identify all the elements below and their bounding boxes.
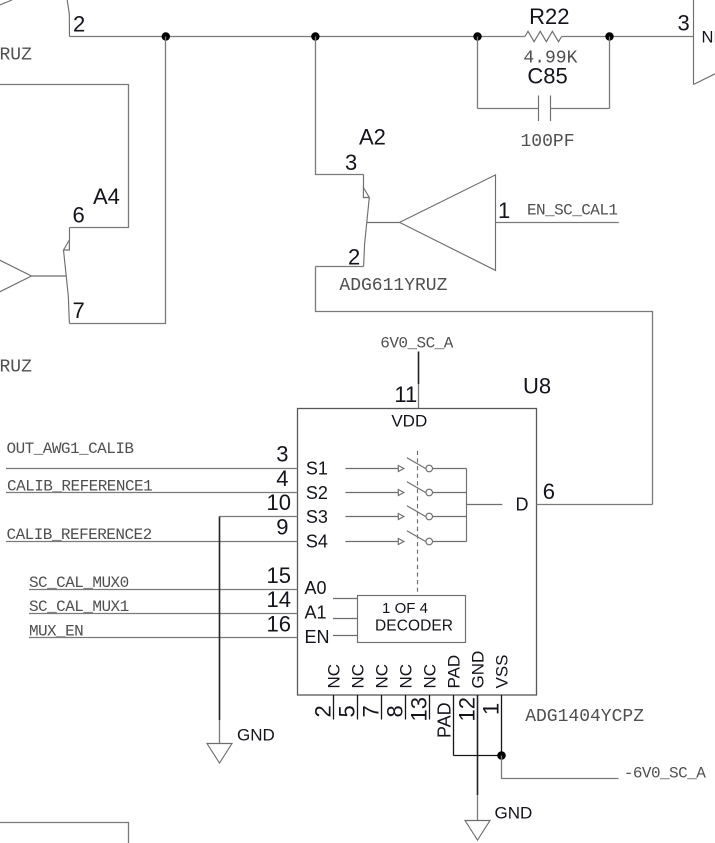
partial component right edge (pin 3) xyxy=(678,0,715,85)
svg-text:1: 1 xyxy=(498,198,510,223)
svg-text:6V0_SC_A: 6V0_SC_A xyxy=(380,334,453,352)
svg-text:5: 5 xyxy=(334,705,359,717)
svg-text:EN_SC_CAL1: EN_SC_CAL1 xyxy=(527,202,618,220)
wire PAD to VSS xyxy=(454,755,502,757)
svg-text:14: 14 xyxy=(267,587,291,612)
svg-text:8: 8 xyxy=(382,705,407,717)
switch A2 driver triangle xyxy=(400,175,496,271)
svg-text:RUZ: RUZ xyxy=(0,46,32,66)
svg-text:VDD: VDD xyxy=(391,412,427,431)
partial box bottom-left xyxy=(0,823,129,843)
svg-text:6: 6 xyxy=(543,479,555,504)
wire pin3 route xyxy=(316,37,364,175)
node junction dot at x=477.9 on top net xyxy=(473,32,481,40)
wire D pin xyxy=(537,504,653,506)
node junction dot at x=315.4 on top net xyxy=(311,32,319,40)
bottom pin numbers xyxy=(310,697,503,738)
node junction dot PAD/VSS xyxy=(497,751,506,760)
svg-text:-6V0_SC_A: -6V0_SC_A xyxy=(624,765,706,783)
decoder box xyxy=(358,596,466,643)
svg-text:100PF: 100PF xyxy=(521,132,575,152)
svg-text:12: 12 xyxy=(454,697,479,721)
svg-text:3: 3 xyxy=(345,150,357,175)
svg-text:6: 6 xyxy=(73,203,85,228)
wire pin1 EN_SC_CAL1 xyxy=(496,222,619,224)
svg-text:GND: GND xyxy=(468,651,487,689)
svg-text:A0: A0 xyxy=(305,578,327,598)
decoder stub A0 xyxy=(333,598,358,600)
switch A4 tap xyxy=(32,275,67,277)
switch A4 blade xyxy=(64,250,70,324)
svg-text:GND: GND xyxy=(237,725,275,744)
svg-text:RUZ: RUZ xyxy=(0,358,32,378)
svg-text:DECODER: DECODER xyxy=(375,618,453,635)
svg-text:ADG1404YCPZ: ADG1404YCPZ xyxy=(525,707,644,727)
mux switch S4 xyxy=(345,531,466,545)
svg-text:GND: GND xyxy=(495,804,533,823)
wire S3 from GND branch xyxy=(220,516,298,518)
switch A4 stub xyxy=(69,228,71,241)
wire pin7 route xyxy=(70,37,166,324)
wire EN xyxy=(29,637,298,639)
wire pin2 to D route xyxy=(316,267,653,505)
svg-text:S1: S1 xyxy=(306,459,328,479)
svg-text:OUT_AWG1_CALIB: OUT_AWG1_CALIB xyxy=(7,440,135,458)
svg-text:7: 7 xyxy=(73,298,85,323)
svg-text:PAD: PAD xyxy=(444,655,463,689)
wire S4 xyxy=(6,541,298,543)
power net 6V0_SC_A xyxy=(380,334,453,408)
svg-text:A4: A4 xyxy=(93,184,120,209)
svg-text:1: 1 xyxy=(478,703,503,715)
svg-text:15: 15 xyxy=(267,563,291,588)
svg-text:7: 7 xyxy=(358,705,383,717)
mux output bus xyxy=(466,469,468,542)
resistor R22 xyxy=(525,31,562,41)
decoder stub EN xyxy=(333,635,358,637)
svg-text:13: 13 xyxy=(406,697,431,721)
switch A2 wedge xyxy=(363,188,369,198)
wire S2 xyxy=(6,492,298,494)
wire A0 xyxy=(29,589,298,591)
svg-text:A2: A2 xyxy=(359,125,386,150)
svg-text:C85: C85 xyxy=(527,64,567,89)
svg-text:3: 3 xyxy=(276,442,288,467)
node junction dot at x=609.5 on top net xyxy=(605,32,613,40)
node junction dot at x=165.8 on top net xyxy=(162,32,170,40)
svg-text:2: 2 xyxy=(310,705,335,717)
mux D tap xyxy=(467,504,503,506)
switch A2 blade xyxy=(364,198,370,267)
svg-text:10: 10 xyxy=(267,490,291,515)
wire S1 xyxy=(6,468,298,470)
svg-text:NC: NC xyxy=(420,664,439,689)
wire pin6 route xyxy=(0,85,129,228)
svg-text:EN: EN xyxy=(305,627,330,647)
switch A4 driver triangle (partial) xyxy=(0,228,32,324)
svg-text:NC: NC xyxy=(324,664,343,689)
dashed control line xyxy=(417,451,419,596)
switch A4 wedge xyxy=(64,240,70,250)
wire top net segment left of R22 xyxy=(70,36,525,38)
svg-text:PAD: PAD xyxy=(434,702,454,738)
svg-text:2: 2 xyxy=(348,245,360,270)
svg-text:S4: S4 xyxy=(306,532,328,552)
decoder stub A1 xyxy=(333,618,358,620)
analog switch A4 (left, partial) xyxy=(0,37,165,378)
partial switch top-left: triangle corner xyxy=(0,0,12,5)
svg-text:NC: NC xyxy=(348,664,367,689)
mux switch S2 xyxy=(345,482,466,496)
bottom pin stubs xyxy=(334,695,502,821)
mux U8 body xyxy=(298,409,537,696)
svg-text:A1: A1 xyxy=(305,603,327,623)
wire A1 xyxy=(29,613,298,615)
svg-text:11: 11 xyxy=(394,382,417,407)
svg-text:VSS: VSS xyxy=(492,654,511,688)
svg-text:1 OF 4: 1 OF 4 xyxy=(382,600,428,617)
svg-text:4: 4 xyxy=(276,466,288,491)
switch A2 stub xyxy=(363,175,365,189)
svg-text:2: 2 xyxy=(73,12,85,37)
svg-text:R22: R22 xyxy=(529,4,569,29)
svg-text:NC: NC xyxy=(372,664,391,689)
switch A2 tap xyxy=(367,222,400,224)
svg-text:9: 9 xyxy=(276,515,288,540)
svg-text:NI: NI xyxy=(702,29,715,47)
wire pin2 terminal xyxy=(316,266,364,268)
wire to -6V0_SC_A xyxy=(502,756,619,779)
bottom pins: names NC NC NC NC NC PAD GND VSS xyxy=(324,651,511,689)
mux switch S3 xyxy=(345,506,466,520)
wire GND branch from S3 xyxy=(219,517,221,721)
svg-text:NC: NC xyxy=(396,664,415,689)
svg-text:3: 3 xyxy=(678,11,690,36)
svg-text:D: D xyxy=(516,494,529,514)
ground symbol (right) xyxy=(465,821,490,841)
svg-text:ADG611YRUZ: ADG611YRUZ xyxy=(339,276,447,296)
svg-text:U8: U8 xyxy=(523,374,551,399)
analog switch A2 xyxy=(316,37,653,505)
mux switch S1 xyxy=(345,458,466,472)
svg-text:S2: S2 xyxy=(306,483,328,503)
svg-text:S3: S3 xyxy=(306,507,328,527)
ground symbol (left) xyxy=(207,744,232,764)
partial switch top-left: blade xyxy=(67,0,69,37)
svg-text:16: 16 xyxy=(267,611,291,636)
capacitor C85 xyxy=(478,37,610,122)
wire top net segment right of R22 xyxy=(562,36,694,38)
